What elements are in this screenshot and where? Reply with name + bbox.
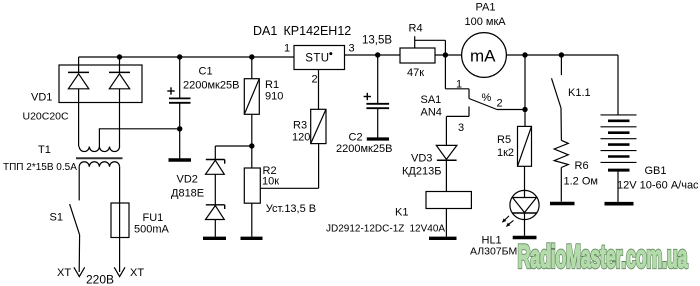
svg-text:DA1: DA1 [253, 24, 277, 38]
C2 plus sign [364, 93, 371, 100]
watermark RadioMaster.com.ua [518, 240, 688, 275]
svg-text:ХТ: ХТ [130, 267, 144, 279]
wire: top rail left (bridge output to DA1 pin1) [79, 56, 294, 58]
wire: rail down to R5 [524, 55, 526, 126]
svg-text:SA1: SA1 [421, 94, 442, 106]
svg-text:K1.1: K1.1 [568, 87, 591, 99]
svg-text:U20C20C: U20C20C [23, 111, 70, 123]
node: R1 top [249, 54, 254, 59]
node: C1 top [177, 54, 182, 59]
node: R1 bottom junction [249, 143, 254, 148]
wire: R6 to ground [560, 168, 562, 202]
svg-text:mA: mA [470, 47, 496, 66]
diode VD1 right half [109, 57, 130, 147]
wire: T1 center tap to C1 bottom node [99, 129, 179, 147]
wire: primary left lead [78, 167, 80, 201]
svg-text:FU1: FU1 [143, 212, 164, 224]
LED HL1 [510, 190, 539, 235]
node: SA1 pin2 junction [522, 107, 527, 112]
svg-text:ТПП 2*15В 0.5А: ТПП 2*15В 0.5А [3, 162, 77, 173]
svg-text:100 мкА: 100 мкА [465, 16, 507, 28]
svg-text:ХТ: ХТ [57, 267, 71, 279]
wire: S1 to XT arrow [78, 235, 80, 272]
svg-text:1: 1 [284, 43, 290, 55]
ground: under C1 [169, 158, 192, 161]
svg-text:2200мк25В: 2200мк25В [183, 80, 239, 92]
connector XT right arrow [114, 267, 125, 276]
svg-text:Уст.13,5 В: Уст.13,5 В [266, 203, 316, 215]
svg-text:PA1: PA1 [476, 2, 496, 14]
zener diode VD2 upper [206, 146, 225, 174]
HL1 emission arrows [502, 216, 514, 227]
node: K1.1 top [559, 52, 564, 57]
svg-text:120: 120 [292, 132, 310, 144]
resistor R3 [311, 109, 326, 143]
svg-text:КР142ЕН12: КР142ЕН12 [284, 24, 352, 38]
connector XT left arrow [74, 267, 85, 276]
svg-text:VD3: VD3 [411, 153, 432, 165]
wire: FU1 to XT arrow [119, 238, 121, 273]
meter PA1 [462, 33, 507, 78]
wire: junction to VD2 [215, 145, 252, 147]
svg-text:47к: 47к [407, 67, 424, 79]
node: bridge top junction [117, 54, 122, 59]
battery GB1 [601, 115, 637, 202]
svg-text:VD2: VD2 [177, 173, 198, 185]
C1 plus sign [167, 87, 174, 94]
node: C2 top [375, 52, 380, 57]
svg-text:R1: R1 [265, 79, 279, 91]
svg-text:500mA: 500mA [134, 224, 170, 236]
svg-text:JD2912-12DC-1Z: JD2912-12DC-1Z [326, 224, 404, 235]
resistor R5 [518, 126, 532, 190]
wire: meter to K1.1 junction [506, 54, 618, 56]
ground: under C2 [367, 137, 389, 140]
svg-text:S1: S1 [50, 212, 63, 224]
resistor R1 [244, 57, 259, 146]
svg-text:220В: 220В [86, 273, 114, 286]
transformer T1 primary winding [79, 162, 119, 167]
ground: under HL1 [513, 236, 537, 239]
diode VD1 left half [68, 57, 89, 147]
ground: under GB1 [605, 202, 634, 206]
svg-text:2: 2 [312, 74, 318, 86]
svg-text:AN4: AN4 [421, 107, 442, 119]
relay contact K1.1 [552, 55, 562, 140]
svg-text:R4: R4 [409, 23, 423, 35]
svg-text:Т1: Т1 [38, 144, 51, 156]
svg-text:13,5В: 13,5В [362, 35, 392, 47]
svg-text:STU: STU [305, 53, 329, 65]
relay coil K1 [426, 192, 471, 209]
ground: under R6 [550, 202, 575, 205]
svg-text:2200мк25В: 2200мк25В [336, 143, 392, 155]
diode VD3 [436, 145, 457, 191]
svg-text:12V 10-60 А/час: 12V 10-60 А/час [617, 180, 699, 192]
svg-text:3: 3 [349, 43, 355, 55]
node: R5 top [522, 52, 527, 57]
transformer T1 core [76, 157, 123, 159]
svg-text:С2: С2 [349, 132, 363, 144]
wire: R4 to meter [435, 54, 462, 56]
potentiometer R2 [244, 146, 260, 237]
svg-text:1к2: 1к2 [497, 147, 514, 159]
svg-text:R6: R6 [575, 160, 589, 172]
capacitor C2 [366, 55, 389, 138]
svg-text:RadioMaster.com.ua: RadioMaster.com.ua [518, 240, 688, 275]
svg-text:1.2 Ом: 1.2 Ом [564, 176, 598, 188]
svg-text:R5: R5 [497, 134, 511, 146]
resistor R6 zigzag [554, 140, 568, 167]
svg-text:3: 3 [458, 122, 464, 134]
node: C1 bottom junction [177, 126, 182, 131]
R2 wiper tap [260, 144, 318, 189]
svg-text:Д818Е: Д818Е [171, 188, 204, 200]
wire: K1 to ground [445, 209, 447, 237]
ground: under R2 [241, 237, 263, 240]
svg-text:10к: 10к [262, 176, 279, 188]
svg-text:%: % [482, 92, 492, 104]
ground: under K1 [429, 237, 457, 240]
svg-text:КД213Б: КД213Б [402, 166, 441, 178]
svg-text:2: 2 [497, 98, 503, 110]
capacitor C1 [169, 57, 191, 159]
wire: rail corner down to battery [617, 55, 619, 115]
wire: primary right lead [119, 167, 121, 203]
node: R4 right junction [443, 52, 448, 57]
svg-text:R3: R3 [293, 120, 307, 132]
svg-text:910: 910 [265, 91, 283, 103]
trimmer R4 [400, 36, 445, 63]
wire: DA1 pin2 down to R3 [318, 70, 320, 110]
bridge rectifier VD1 box [59, 65, 142, 103]
fuse FU1 [111, 203, 129, 238]
svg-text:K1: K1 [395, 207, 408, 219]
svg-text:АЛ307БМ: АЛ307БМ [470, 246, 517, 258]
svg-text:1: 1 [456, 79, 462, 91]
switch SA1 [445, 55, 525, 145]
svg-text:12V40A: 12V40A [410, 224, 446, 235]
switch S1 blade [70, 204, 80, 235]
ground: under VD2 [203, 237, 226, 240]
svg-text:C1: C1 [199, 66, 213, 78]
wire: top rail right (DA1 pin3 to battery) [345, 54, 401, 56]
transformer T1 secondary winding [79, 147, 119, 152]
svg-text:VD1: VD1 [31, 92, 52, 104]
zener diode VD2 lower [206, 174, 225, 237]
regulator DA1 box [294, 46, 345, 70]
svg-text:GB1: GB1 [645, 165, 667, 177]
